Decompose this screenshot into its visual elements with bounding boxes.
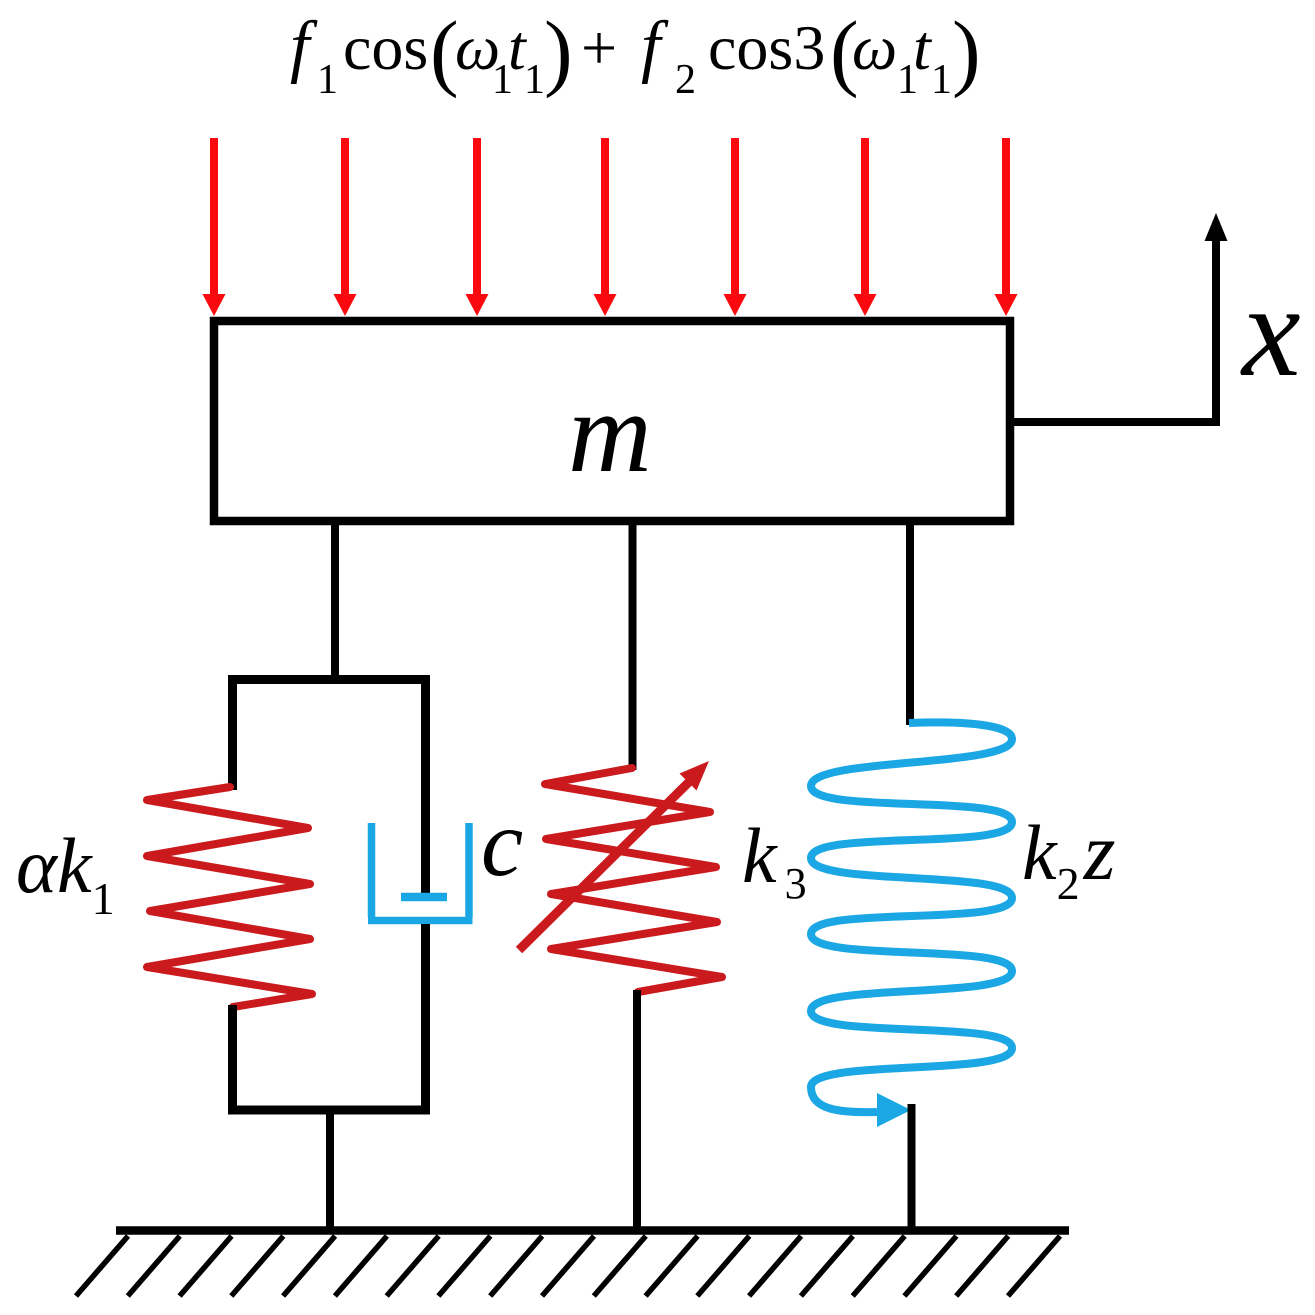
load arrow 3: [473, 138, 481, 296]
svg-text:1: 1: [317, 57, 338, 103]
svg-text:1: 1: [931, 57, 952, 103]
middle branch wire from mass: [629, 522, 637, 770]
wire below k3 to ground: [633, 990, 641, 1234]
svg-text:cos: cos: [343, 12, 428, 83]
right branch wire from mass: [906, 522, 914, 725]
parallel box: top bar: [228, 675, 430, 684]
left branch wire from mass: [331, 522, 339, 684]
parallel box: bottom bar: [228, 1106, 430, 1115]
svg-text:1: 1: [524, 57, 545, 103]
damper rod (lower): [421, 924, 430, 1114]
svg-text:): ): [544, 3, 573, 99]
parallel box: upper-left vertical: [228, 675, 237, 790]
svg-text:x: x: [1240, 257, 1301, 404]
damper piston plate: [401, 893, 447, 902]
svg-text:+: +: [581, 12, 617, 83]
svg-text:cos3: cos3: [708, 12, 825, 83]
mass m block: [214, 321, 1010, 521]
load arrow 7: [1002, 138, 1010, 296]
svg-text:2: 2: [675, 57, 696, 103]
damper cup (blue): [368, 823, 473, 921]
svg-text:c: c: [481, 790, 523, 896]
load arrow 1: [210, 138, 218, 296]
ground hatching: [76, 1236, 1060, 1296]
svg-text:ω: ω: [852, 12, 897, 83]
ground line: [116, 1226, 1069, 1235]
distributed load arrows (red): [203, 138, 1018, 316]
damper rod (upper): [421, 675, 430, 895]
variable-spring arrow through k3: [519, 761, 709, 950]
load arrow 2: [341, 138, 349, 296]
forcing function formula f1cos(w1t1)+f2cos3(w1t1): [290, 3, 981, 103]
coil spring k2 (blue helix): [811, 722, 1012, 1112]
coil end arrowhead: [877, 1093, 911, 1127]
spring alpha-k1 (zigzag): [147, 787, 312, 1007]
load arrow 5: [731, 138, 739, 296]
spring k3 (zigzag): [545, 768, 722, 992]
svg-text:m: m: [568, 369, 652, 497]
load arrow 6: [861, 138, 869, 296]
svg-text:t: t: [913, 12, 933, 83]
wire below coil to ground: [908, 1104, 916, 1234]
displacement axis x: [1014, 213, 1301, 422]
load arrow 4: [601, 138, 609, 296]
parallel box: lower-left vertical: [228, 1005, 237, 1114]
wire below parallel box to ground: [326, 1110, 334, 1234]
svg-text:): ): [952, 3, 981, 99]
